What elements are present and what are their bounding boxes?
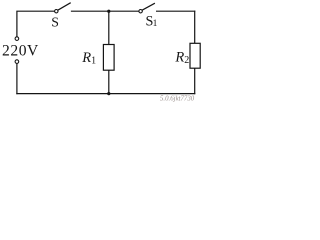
wire: right vertical from R2 to bottom corner <box>194 68 196 93</box>
wire: bottom horizontal <box>17 93 195 95</box>
wire: left vertical top + top-left segment to switch S <box>17 11 55 37</box>
switch S blade <box>58 3 71 11</box>
wire: left vertical bottom from terminal to corner <box>16 64 18 94</box>
resistor R1 body <box>103 45 114 71</box>
switch S1 pivot circle <box>139 10 142 13</box>
terminal (source -) bottom circle <box>15 60 19 64</box>
resistor R2 body <box>190 43 200 68</box>
svg-text:S: S <box>51 15 59 30</box>
svg-text:5.0.6jkt7730: 5.0.6jkt7730 <box>160 94 194 103</box>
terminal (source +) top circle <box>15 37 19 41</box>
wire: vertical from top junction down to R1 <box>108 11 110 44</box>
junction dot bottom (node where R1 branch meets bottom wire) <box>107 92 110 95</box>
wire: top middle segment between S and S1 <box>72 10 139 12</box>
svg-text:220V: 220V <box>2 43 39 60</box>
junction dot top (node where R1 branch meets top wire) <box>107 10 110 13</box>
switch S pivot circle <box>55 10 58 13</box>
wire: top right segment from S1 to corner <box>157 10 195 12</box>
wire: vertical from R1 down to bottom junction <box>108 70 110 93</box>
switch S1 blade <box>142 3 155 10</box>
wire: right vertical from top corner to R2 <box>194 11 196 43</box>
